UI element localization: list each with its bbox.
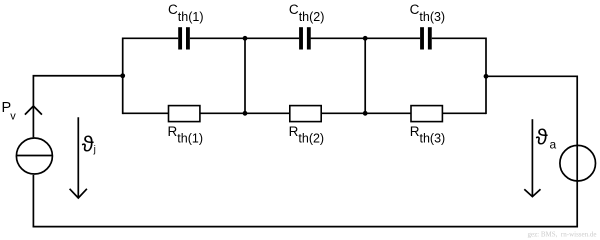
junction dot node A mid <box>120 73 125 78</box>
svg-text:v: v <box>10 110 16 122</box>
junction dot node C top <box>363 36 368 41</box>
svg-text:ϑ: ϑ <box>536 125 548 150</box>
arrow theta_j (pointing down) <box>70 117 87 198</box>
capacitor C_th(3) <box>420 27 432 49</box>
wire from current source bottom to bottom rail <box>32 175 34 227</box>
wire vertical node D (right end of ladder) <box>485 38 487 115</box>
svg-text:th(1): th(1) <box>177 132 203 146</box>
svg-text:ϑ: ϑ <box>82 131 94 156</box>
wire top rail segment 4 (C3 right plate to node D) <box>432 37 486 39</box>
wire top rail segment 3 (C2 right plate to C3 left plate) <box>311 37 421 39</box>
voltage source theta_a (right circle on rail) <box>560 145 596 181</box>
svg-text:R: R <box>410 124 420 139</box>
svg-text:R: R <box>168 124 178 139</box>
current source P_v (left circle with horizontal bar) <box>16 138 52 174</box>
wire outer bottom rail <box>33 226 578 228</box>
junction dot node C bottom <box>363 111 368 116</box>
label R_th(2) <box>289 124 325 146</box>
svg-text:th(2): th(2) <box>299 10 325 24</box>
junction dot node B top <box>243 36 248 41</box>
svg-text:th(1): th(1) <box>178 10 204 24</box>
resistor R_th(1) <box>169 106 200 122</box>
resistor R_th(3) <box>411 106 442 122</box>
svg-text:j: j <box>93 145 96 156</box>
arrow theta_a (pointing down) <box>524 119 540 196</box>
wire top rail segment 1 (node A to C1 left plate) <box>123 37 179 39</box>
svg-text:th(2): th(2) <box>298 132 324 146</box>
svg-text:gez: BMS, rn-wissen.de: gez: BMS, rn-wissen.de <box>527 231 596 239</box>
wire vertical node C (between section 2 and 3) <box>364 38 366 115</box>
label P_v <box>2 100 17 122</box>
svg-text:R: R <box>289 124 299 139</box>
label C_th(1) <box>168 2 204 24</box>
svg-text:C: C <box>289 2 299 17</box>
wire vertical node A (left end of ladder) <box>122 38 124 115</box>
arrow P_v (pointing up on left lead) <box>25 106 42 115</box>
junction dot node D mid <box>484 74 489 79</box>
capacitor C_th(2) <box>299 27 311 49</box>
wire left branch from node A to current source <box>33 76 122 138</box>
label R_th(3) <box>410 124 446 146</box>
wire right branch from node D to right rail <box>486 76 577 227</box>
svg-text:C: C <box>168 2 178 17</box>
capacitor C_th(1) <box>178 27 190 49</box>
label R_th(1) <box>168 124 204 146</box>
junction dot node B bottom <box>243 111 248 116</box>
wire top rail segment 2 (C1 right plate to C2 left plate) <box>190 37 299 39</box>
label theta_j <box>82 131 96 156</box>
label C_th(2) <box>289 2 325 24</box>
label theta_a <box>536 125 557 152</box>
svg-text:C: C <box>410 2 420 17</box>
wire bottom rail of RC ladder <box>123 112 486 114</box>
svg-text:th(3): th(3) <box>420 132 446 146</box>
svg-text:th(3): th(3) <box>419 10 445 24</box>
svg-text:a: a <box>550 138 557 152</box>
resistor R_th(2) <box>290 106 321 122</box>
label C_th(3) <box>410 2 446 24</box>
wire vertical node B (between section 1 and 2) <box>244 38 246 115</box>
